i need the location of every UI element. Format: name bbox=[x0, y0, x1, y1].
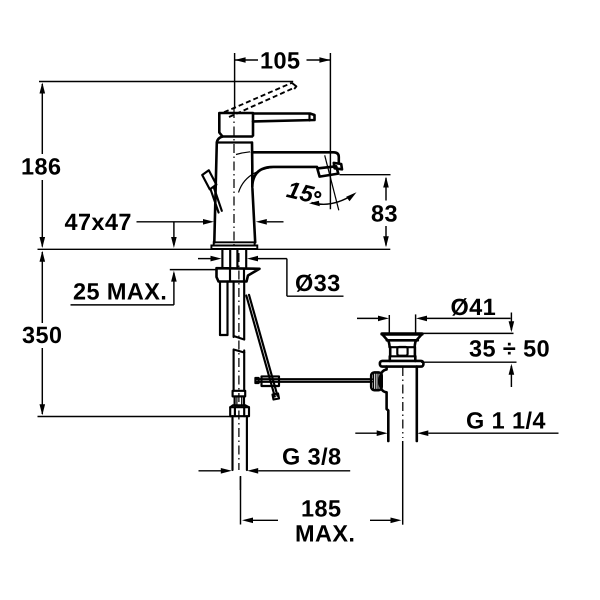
spout inner curve bbox=[239, 167, 274, 192]
faucet lever bar bbox=[253, 114, 315, 122]
supply hose lower segment bbox=[233, 351, 235, 391]
185 extension line left bbox=[240, 476, 242, 525]
threaded stud bbox=[219, 282, 221, 336]
dimension 47x47 bbox=[65, 214, 130, 230]
dimension 15 degrees text bbox=[286, 181, 315, 203]
drain body bbox=[380, 367, 389, 441]
drain upper body bbox=[389, 347, 392, 356]
pop-up rod diagonal bbox=[246, 296, 274, 397]
deck bottom line bbox=[170, 269, 217, 271]
dimension G 3/8 bbox=[283, 448, 340, 466]
dimension 25 MAX. bbox=[74, 283, 165, 300]
supply pipe G3/8 bbox=[231, 416, 233, 470]
drain flange top bbox=[382, 332, 422, 335]
pop-up rod upper bbox=[211, 189, 219, 212]
faucet base plate bbox=[214, 242, 255, 245]
bottom reference line (350 level) bbox=[38, 416, 232, 418]
faucet body right edge and spout underside bbox=[252, 143, 317, 188]
dimension 35÷50 bbox=[470, 340, 549, 357]
rod left cap bbox=[255, 378, 258, 383]
faucet handle raised (dashed) bbox=[224, 83, 292, 112]
drain square hole bbox=[397, 347, 407, 356]
knurled knob bbox=[371, 372, 382, 390]
dimension 186 line bbox=[41, 84, 43, 154]
dimension Ø33 bbox=[296, 274, 339, 292]
threaded shank bbox=[221, 250, 223, 268]
mounting bracket bbox=[217, 268, 260, 281]
dimension 83 bbox=[372, 205, 397, 222]
spout lip step bbox=[334, 163, 342, 169]
dimension 350 line bbox=[41, 252, 43, 323]
dimension 185 MAX. bbox=[303, 500, 341, 517]
rod end cap bbox=[273, 394, 280, 400]
15 degree arc with arrows bbox=[312, 195, 354, 205]
spout top bbox=[252, 152, 339, 162]
dimension 105 line bbox=[235, 59, 258, 61]
dimension 350 text bbox=[23, 327, 62, 344]
horizontal linkage rod bbox=[256, 378, 372, 380]
Ø41 extension lines bbox=[388, 315, 390, 333]
pop-up pull knob bbox=[202, 170, 216, 189]
aerator level extension line bbox=[340, 174, 391, 176]
105 right extension line (through spout tip) bbox=[329, 53, 331, 209]
faucet body left edge bbox=[214, 143, 217, 243]
aerator block (15 deg) bbox=[317, 166, 338, 176]
linkage clamp bbox=[262, 376, 280, 386]
hose end fitting bbox=[235, 396, 244, 405]
supply nut bbox=[230, 405, 249, 407]
dimension G 1 1/4 bbox=[467, 412, 545, 430]
deck top line bbox=[38, 248, 391, 250]
faucet centerline bbox=[233, 109, 235, 249]
faucet headwork block bbox=[219, 113, 253, 137]
supply hose upper segment bbox=[233, 282, 235, 338]
dimension Ø41 bbox=[452, 298, 496, 316]
drain band bbox=[388, 356, 391, 361]
drain centerline bbox=[402, 367, 404, 438]
185 extension line right bbox=[402, 441, 404, 525]
faucet neck joint bbox=[217, 137, 252, 143]
supply hose centerline stub below bbox=[239, 477, 241, 491]
105 left extension line bbox=[234, 53, 236, 109]
supply hose centerline bbox=[238, 253, 240, 470]
dimension 105 text bbox=[262, 52, 300, 69]
handle tip cap bbox=[292, 83, 297, 89]
drain flange cone bbox=[388, 341, 389, 348]
drain collar bbox=[380, 361, 424, 367]
dimension 186 text bbox=[23, 158, 61, 175]
top reference line (handle top level) bbox=[39, 81, 293, 83]
hose end collar bbox=[233, 391, 246, 397]
15 degree reference line bbox=[325, 155, 339, 210]
